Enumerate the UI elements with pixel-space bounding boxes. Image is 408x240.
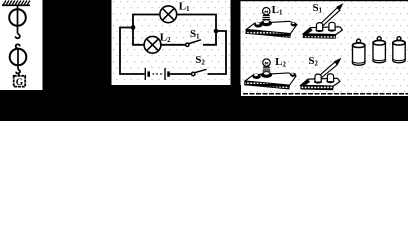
left outer wire: [120, 28, 145, 75]
node wire right: [208, 31, 227, 74]
terminal right: [290, 73, 296, 77]
slab top face: [245, 73, 296, 85]
socket collar: [261, 20, 272, 26]
slab left dark wedge: [303, 28, 312, 35]
slab hatched front: [303, 34, 336, 39]
dry cell 1: [353, 39, 365, 65]
slab top face: [303, 27, 342, 35]
post left base: [316, 28, 324, 32]
lamp L2: [144, 36, 161, 53]
filament: [265, 11, 268, 13]
right panel top border: [240, 0, 408, 1]
post left: [315, 74, 321, 82]
post right base: [328, 28, 336, 32]
hook 2 (eye of lower unit): [16, 44, 20, 48]
slab hatched front: [245, 81, 290, 89]
black band between left figure and circuit: [43, 0, 112, 121]
switch blade lever: [317, 8, 340, 29]
switch blade lever: [315, 62, 337, 81]
post right: [327, 74, 333, 82]
dry cell 3: [393, 37, 405, 63]
slab hatched front: [301, 85, 334, 90]
terminal left: [254, 22, 262, 27]
bottom wire after battery: [170, 73, 191, 75]
slab hatched front: [246, 30, 291, 38]
ceiling line: [2, 4, 30, 6]
rod to pulley 1: [17, 5, 19, 26]
middle panel stipple background: [111, 0, 231, 85]
hook 1: [16, 34, 20, 38]
switch S1: [186, 40, 201, 47]
switch S2: [192, 69, 207, 75]
switch S2 pictorial: [301, 58, 342, 90]
terminal right: [291, 22, 297, 26]
right panel bottom border line: [243, 93, 408, 95]
L2 branch wires: [133, 28, 144, 45]
slab top face: [246, 21, 297, 33]
filament: [265, 62, 268, 64]
post left: [317, 23, 323, 31]
terminal left: [252, 74, 260, 79]
screw base: [262, 15, 270, 20]
weight G box: [14, 76, 26, 87]
post left base: [314, 80, 322, 84]
ceiling hatching: [3, 1, 30, 6]
black bottom bar left: [0, 90, 43, 121]
black bottom bar right: [240, 96, 408, 121]
screw base: [263, 67, 271, 72]
lamp L1: [160, 6, 177, 23]
hook 3 to weight: [16, 70, 20, 76]
battery cell 2 short plate: [167, 71, 170, 76]
slab top face: [301, 78, 340, 86]
svg-text:G: G: [16, 78, 24, 88]
post right base: [326, 79, 334, 83]
pulley 2 circle: [10, 49, 27, 66]
right panel stipple background: [240, 1, 408, 93]
battery dash-dot: [153, 73, 164, 75]
black bottom bar middle: [111, 85, 241, 121]
battery cell 1 long plate: [144, 68, 146, 80]
post right: [329, 22, 335, 30]
node A (left junction): [131, 25, 136, 30]
lamp L1 pictorial: [246, 8, 297, 38]
pulley 1 circle: [9, 9, 26, 26]
rod below pulley 2: [17, 66, 19, 70]
dry cell 2: [373, 37, 385, 63]
switch S1 pictorial: [303, 3, 343, 38]
bulb glass: [263, 59, 270, 66]
slab left dark wedge: [301, 79, 310, 86]
battery cell 2 long plate: [164, 68, 166, 80]
battery cell 1 short plate: [147, 71, 150, 76]
node B (right junction): [214, 29, 219, 34]
bulb glass: [263, 8, 270, 15]
socket collar: [261, 72, 272, 78]
rod below pulley 1: [17, 26, 19, 34]
L1 branch wires: [133, 15, 160, 28]
rod to pulley 2: [17, 49, 19, 67]
divider black bar between panels: [231, 0, 241, 96]
lamp L2 pictorial: [245, 59, 297, 89]
